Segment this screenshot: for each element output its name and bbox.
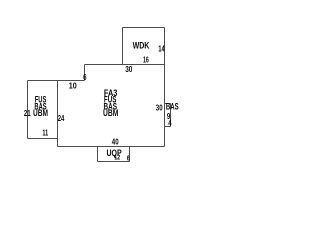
wire: right wall (WDK + main)	[164, 28, 166, 147]
svg-text:16: 16	[143, 55, 149, 64]
wire: BAS bump top edge	[165, 103, 171, 105]
svg-text:UBM: UBM	[33, 108, 48, 118]
svg-text:BAS: BAS	[166, 101, 179, 111]
wire: UQP right edge	[129, 147, 131, 162]
svg-text:21: 21	[24, 109, 31, 118]
svg-text:6: 6	[83, 73, 87, 82]
wire: left wing left edge	[27, 81, 29, 139]
wire: WDK top edge	[123, 27, 165, 29]
svg-text:30: 30	[156, 104, 163, 113]
svg-text:24: 24	[58, 114, 65, 123]
svg-text:6: 6	[127, 155, 130, 162]
wire: step vertical (6)	[84, 65, 86, 81]
wire: UQP bottom edge	[98, 161, 130, 163]
wire: WDK left edge	[122, 28, 124, 65]
building sketch: floor plan	[0, 0, 250, 187]
wire: main bottom edge	[58, 146, 165, 148]
svg-text:30: 30	[125, 65, 133, 74]
svg-text:12: 12	[114, 154, 120, 161]
svg-text:10: 10	[69, 81, 77, 90]
wire: BAS bump right edge	[170, 104, 172, 127]
svg-text:14: 14	[158, 44, 165, 53]
svg-text:4: 4	[168, 118, 172, 127]
wire: main left wall	[57, 81, 59, 147]
svg-text:40: 40	[112, 137, 119, 146]
svg-text:11: 11	[42, 129, 48, 138]
wire: main top edge	[85, 64, 165, 66]
svg-text:WDK: WDK	[133, 40, 150, 50]
wire: UQP left edge	[97, 147, 99, 162]
wire: top edge of left wing + 10-step	[28, 80, 85, 82]
wire: BAS bump bottom edge	[165, 126, 171, 128]
svg-text:UBM: UBM	[103, 108, 118, 118]
wire: left wing bottom edge	[28, 138, 58, 140]
